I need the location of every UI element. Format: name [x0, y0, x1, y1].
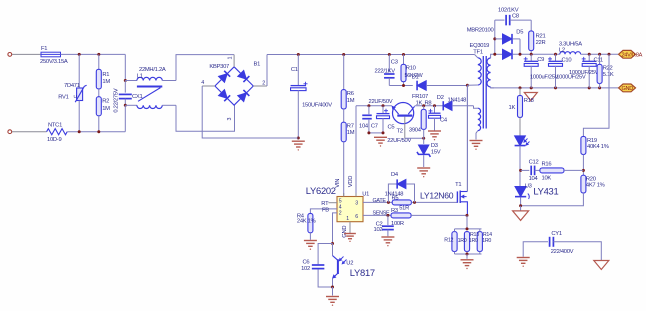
svg-text:22R: 22R — [536, 40, 546, 46]
svg-text:R3: R3 — [391, 208, 398, 214]
svg-text:104: 104 — [529, 176, 539, 182]
svg-text:VIN: VIN — [335, 179, 341, 188]
svg-text:1M: 1M — [102, 79, 110, 85]
svg-text:4: 4 — [201, 80, 204, 86]
svg-text:R21: R21 — [536, 33, 546, 39]
svg-text:C8: C8 — [512, 14, 519, 20]
svg-text:R1: R1 — [102, 72, 109, 78]
svg-text:R12: R12 — [444, 237, 453, 243]
svg-text:0.22/275V: 0.22/275V — [114, 88, 120, 112]
svg-text:EQ3019: EQ3019 — [470, 43, 490, 49]
svg-text:VDD: VDD — [348, 176, 354, 187]
svg-text:CY1: CY1 — [551, 231, 561, 237]
svg-text:F1: F1 — [41, 46, 47, 52]
svg-text:L2: L2 — [559, 48, 565, 54]
svg-text:1M: 1M — [347, 130, 355, 136]
svg-text:6: 6 — [355, 214, 358, 220]
svg-text:22MH/1.2A: 22MH/1.2A — [139, 67, 166, 73]
svg-text:3904: 3904 — [409, 127, 422, 133]
svg-text:1: 1 — [346, 216, 349, 222]
svg-text:RV1: RV1 — [58, 95, 68, 101]
svg-text:102/1KV: 102/1KV — [498, 7, 519, 13]
svg-text:L1: L1 — [137, 74, 143, 80]
svg-text:C3: C3 — [391, 60, 398, 66]
svg-text:3: 3 — [227, 118, 233, 121]
svg-text:LY817: LY817 — [350, 267, 375, 278]
svg-text:1R0: 1R0 — [469, 238, 478, 244]
svg-text:MBR20100: MBR20100 — [467, 28, 494, 34]
svg-text:1K: 1K — [416, 100, 423, 106]
svg-text:R16: R16 — [542, 162, 552, 168]
svg-text:T1: T1 — [455, 182, 461, 188]
svg-text:250V/3.15A: 250V/3.15A — [40, 59, 68, 65]
svg-text:2: 2 — [339, 211, 342, 217]
svg-text:R2: R2 — [102, 99, 109, 105]
svg-text:22UF/50V: 22UF/50V — [369, 99, 393, 105]
svg-text:B1: B1 — [254, 61, 261, 67]
svg-text:C9: C9 — [537, 57, 544, 63]
svg-text:C7: C7 — [371, 124, 378, 130]
svg-text:R18: R18 — [524, 98, 534, 104]
svg-text:U3: U3 — [525, 183, 532, 189]
svg-text:10K: 10K — [542, 175, 552, 181]
svg-text:102: 102 — [374, 227, 383, 233]
svg-text:LY431: LY431 — [533, 186, 558, 197]
svg-text:T2: T2 — [397, 128, 403, 134]
svg-text:C11: C11 — [594, 58, 603, 64]
svg-text:NTC1: NTC1 — [48, 123, 62, 129]
svg-text:24V/0.8A: 24V/0.8A — [622, 53, 643, 59]
svg-text:D3: D3 — [431, 143, 438, 149]
svg-text:R7: R7 — [347, 123, 354, 129]
svg-text:C6: C6 — [303, 259, 310, 265]
svg-text:3: 3 — [355, 200, 358, 206]
svg-text:C10: C10 — [562, 58, 572, 64]
svg-text:C12: C12 — [529, 159, 539, 165]
svg-text:R10: R10 — [406, 65, 416, 71]
svg-text:1: 1 — [228, 57, 234, 60]
svg-text:1M: 1M — [347, 98, 355, 104]
svg-text:102: 102 — [301, 266, 310, 272]
svg-text:LY6202: LY6202 — [306, 185, 336, 196]
svg-text:7D471: 7D471 — [64, 83, 80, 89]
svg-text:1R0: 1R0 — [458, 238, 467, 244]
svg-text:1R0: 1R0 — [482, 238, 491, 244]
svg-text:1000uF/25V: 1000uF/25V — [530, 75, 559, 81]
svg-text:2: 2 — [262, 80, 265, 86]
svg-text:150UF/400V: 150UF/400V — [302, 103, 332, 109]
svg-text:15V: 15V — [431, 150, 441, 156]
svg-text:1000UF/25V: 1000UF/25V — [569, 70, 599, 76]
svg-text:U2: U2 — [346, 260, 353, 266]
svg-text:51R: 51R — [399, 205, 409, 211]
svg-text:R8: R8 — [425, 100, 432, 106]
svg-text:D2: D2 — [437, 95, 444, 101]
svg-text:C5: C5 — [388, 125, 395, 131]
svg-text:U1: U1 — [362, 191, 369, 197]
svg-text:KBP307: KBP307 — [209, 64, 229, 70]
svg-text:LY12N60: LY12N60 — [420, 191, 454, 201]
svg-text:GATE: GATE — [373, 198, 387, 204]
svg-text:10D-9: 10D-9 — [47, 137, 61, 143]
svg-text:C4: C4 — [440, 118, 448, 124]
svg-text:24K 1%: 24K 1% — [297, 219, 316, 225]
svg-text:C1: C1 — [291, 67, 298, 73]
svg-text:222/400V: 222/400V — [551, 249, 574, 255]
svg-text:40K4 1%: 40K4 1% — [587, 144, 609, 150]
svg-text:D4: D4 — [391, 172, 399, 178]
svg-text:GND: GND — [622, 86, 634, 92]
svg-text:R6: R6 — [347, 91, 354, 97]
svg-text:D5: D5 — [516, 30, 523, 36]
svg-text:4K7 1%: 4K7 1% — [586, 182, 605, 188]
svg-text:D1: D1 — [412, 75, 419, 81]
svg-text:FR107: FR107 — [412, 94, 428, 100]
svg-text:R22: R22 — [603, 66, 613, 72]
svg-text:222/1KV: 222/1KV — [375, 69, 396, 75]
svg-text:1K: 1K — [509, 105, 516, 111]
svg-text:104: 104 — [359, 123, 369, 129]
svg-text:RT: RT — [321, 201, 329, 207]
svg-text:5.1K: 5.1K — [603, 72, 614, 78]
svg-text:5: 5 — [339, 198, 342, 204]
svg-text:FB: FB — [322, 207, 329, 213]
svg-text:1M: 1M — [102, 106, 110, 112]
svg-text:1N4148: 1N4148 — [385, 191, 404, 197]
svg-text:U: U — [74, 94, 77, 99]
